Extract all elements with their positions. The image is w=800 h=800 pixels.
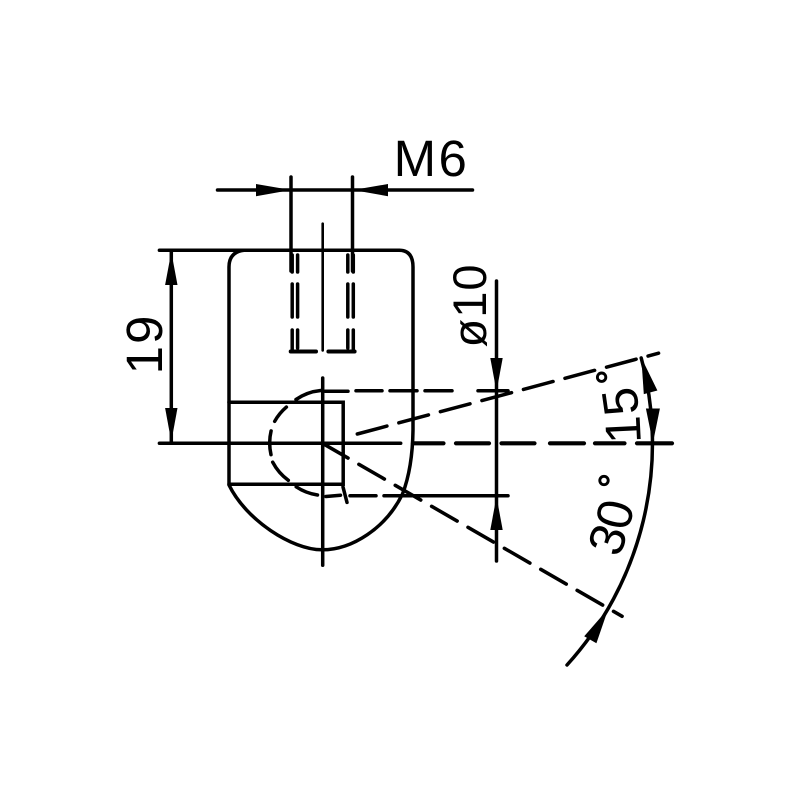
dia10 top extension dash 3 <box>390 389 417 393</box>
angle dimension arc <box>567 358 652 665</box>
hidden hole circle dash a8 (bottom-right tilted) <box>343 487 347 502</box>
hidden hole circle dash a3 <box>275 407 287 421</box>
thread bottom right dash <box>328 350 354 354</box>
15 deg dashed line <box>357 353 658 434</box>
hidden hole circle dash a7 <box>326 495 341 496</box>
body top edge with 19-extension <box>159 249 399 253</box>
hidden hole circle dash a4 <box>270 431 271 455</box>
dia10 bottom extension dash 2 <box>384 494 508 498</box>
thread centerline <box>321 224 324 351</box>
15 deg degree circle <box>597 373 605 381</box>
hidden hole circle dash a6 <box>296 487 317 495</box>
horizontal centerline dash 2 <box>456 441 489 445</box>
dia10 upper arrowhead <box>490 358 502 392</box>
notch rectangle <box>229 402 343 484</box>
horizontal centerline dash 5 <box>595 441 625 445</box>
dia10 top extension dash 2 <box>356 389 382 393</box>
horizontal centerline dash 3 <box>502 441 535 445</box>
body outline <box>229 250 413 550</box>
thread hole dashed line inner-right <box>346 255 350 348</box>
M6 left extension line <box>289 177 293 271</box>
M6 dimension line <box>218 188 473 192</box>
dia10 lower arrowhead <box>490 497 502 531</box>
M6 right extension line <box>351 177 355 271</box>
horizontal centerline dash 4 <box>550 441 584 445</box>
horizontal centerline dash 1 <box>413 441 444 445</box>
M6 left arrowhead <box>256 184 291 196</box>
19 lower arrowhead <box>165 408 177 442</box>
arc arrowhead at 15deg <box>641 358 657 395</box>
hidden hole circle dash a2 <box>296 391 321 400</box>
horizontal centerline solid part <box>159 442 400 446</box>
30 deg degree circle <box>600 476 608 484</box>
arc arrowhead at centerline <box>646 409 660 444</box>
thread hole dashed line outer-left <box>290 255 294 352</box>
eye vertical centerline <box>321 378 325 565</box>
svg-text:15: 15 <box>591 382 652 445</box>
dia10 bottom extension dash 1 <box>350 494 376 498</box>
M6 right arrowhead <box>353 184 388 196</box>
19 dimension line <box>170 250 174 443</box>
dia10 dimension line <box>495 281 499 561</box>
hidden hole circle dash a5 <box>273 462 289 480</box>
svg-text:19: 19 <box>116 314 173 375</box>
dia10 top extension dash 4 <box>425 389 452 393</box>
thread hole dashed line outer-right <box>352 255 356 352</box>
30 deg dashed line <box>323 443 623 616</box>
horizontal centerline dash 6 <box>637 441 672 445</box>
dia10 top extension dash 5 <box>478 389 508 393</box>
thread bottom left dash <box>291 350 316 354</box>
svg-text:ø10: ø10 <box>443 264 496 348</box>
dia10 top extension dash 1 <box>325 389 348 393</box>
svg-text:M6: M6 <box>394 130 470 187</box>
19 upper arrowhead <box>165 252 177 285</box>
thread hole dashed line inner-left <box>296 255 300 348</box>
label guide arc (invisible) <box>527 309 641 687</box>
arc arrowhead at 30deg <box>584 609 608 644</box>
